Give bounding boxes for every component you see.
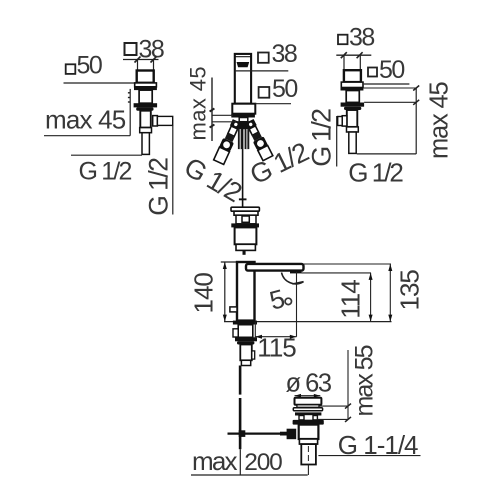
- arrow right: [314, 394, 321, 398]
- centerline: [307, 446, 309, 462]
- linkage blob: [239, 430, 246, 437]
- G 1-1/4 underline: [318, 455, 420, 457]
- arrow right: [290, 335, 297, 339]
- svg-text:max 45: max 45: [186, 66, 211, 141]
- tick right: [151, 57, 157, 63]
- knob: [242, 216, 249, 222]
- square symbol 50: [259, 87, 270, 98]
- arrow top: [369, 273, 373, 280]
- svg-text:max 45: max 45: [426, 82, 454, 159]
- 115 ext left: [254, 322, 256, 339]
- tube lower: [349, 132, 356, 153]
- black band lower: [341, 103, 365, 107]
- 115 dim line: [255, 336, 296, 338]
- waste body: [299, 425, 319, 439]
- svg-text:38: 38: [272, 40, 297, 68]
- ext line right: [359, 55, 361, 70]
- swivel arc: [282, 273, 304, 284]
- locknut: [136, 107, 153, 110]
- max45 ext upper: [363, 87, 416, 89]
- square symbol for 50: [66, 64, 76, 74]
- svg-text:G 1/2: G 1/2: [306, 109, 336, 167]
- square symbol 38: [258, 53, 269, 63]
- body cap line: [235, 56, 251, 58]
- faucet body: [237, 262, 255, 321]
- black band lower: [134, 103, 158, 107]
- band2: [235, 337, 257, 341]
- arrow top: [223, 262, 227, 269]
- arrow bottom: [388, 315, 392, 322]
- second disc: [234, 211, 258, 215]
- neck: [299, 416, 317, 420]
- body: [344, 70, 361, 82]
- top disc: [231, 207, 259, 211]
- tube: [240, 345, 252, 361]
- ext line lower: [212, 121, 236, 123]
- flange: [341, 82, 363, 87]
- max45 leader vertical: [129, 89, 131, 136]
- bottom cap: [236, 244, 255, 250]
- tube step: [347, 127, 359, 132]
- svg-text:ø 63: ø 63: [286, 369, 332, 397]
- square symbol 38: [338, 35, 348, 45]
- ext line upper: [212, 114, 233, 116]
- hose upper: [239, 366, 242, 395]
- svg-text:max 45: max 45: [45, 105, 126, 135]
- tube: [347, 110, 358, 127]
- base: [232, 104, 255, 114]
- hose lower: [239, 398, 242, 449]
- bottom cap: [299, 439, 317, 444]
- tube lower: [142, 133, 149, 155]
- tick upper: [413, 86, 419, 91]
- tailpipe: [301, 444, 316, 464]
- leader line 50: [64, 82, 135, 84]
- arrow left: [295, 394, 302, 398]
- base flange black: [231, 114, 255, 118]
- svg-text:200: 200: [244, 449, 282, 476]
- square symbol 50: [368, 68, 377, 77]
- o-ring band2: [293, 420, 324, 425]
- max55 dim vertical: [347, 350, 349, 419]
- rod crossbar: [239, 198, 247, 200]
- label line 50: [255, 103, 291, 105]
- arc tick: [293, 282, 304, 284]
- svg-text:G 1/2: G 1/2: [348, 158, 403, 188]
- faucet body front: [235, 54, 251, 104]
- ext line left: [343, 55, 345, 70]
- 114 dim vertical: [370, 273, 372, 322]
- arrow bottom: [369, 315, 373, 322]
- locknut: [344, 107, 361, 110]
- max 45 underline: [44, 135, 130, 137]
- 140 dim vertical: [224, 262, 226, 322]
- left hose: [213, 119, 243, 165]
- under rect: [297, 405, 319, 408]
- leader dash 3: [128, 101, 130, 103]
- dimension line 38: [123, 59, 159, 61]
- svg-text:G 1/2: G 1/2: [143, 158, 173, 216]
- label line 38: [235, 70, 288, 72]
- dim line 38: [336, 54, 371, 56]
- vertical G 1/2 leader: [172, 126, 174, 215]
- G 1/2 leader: [357, 153, 416, 155]
- extension line right: [153, 60, 155, 71]
- center fitting block: [238, 123, 249, 130]
- o-ring band1: [295, 412, 321, 415]
- spout: [246, 264, 304, 271]
- linkage bar: [228, 433, 289, 435]
- dia63 dim line: [295, 395, 321, 397]
- tick left: [135, 57, 141, 63]
- svg-text:38: 38: [349, 24, 374, 52]
- G 1/2 leader: [71, 154, 142, 156]
- washer line: [232, 121, 254, 123]
- 114 ext line: [302, 272, 372, 274]
- leader dash 1: [128, 92, 130, 94]
- faucet body: [137, 71, 154, 83]
- inlet pipe lines: [280, 431, 287, 433]
- washer: [293, 408, 322, 411]
- neck: [236, 215, 256, 224]
- tick lower: [413, 100, 419, 105]
- waste body: [235, 227, 257, 244]
- leader 50: [364, 83, 410, 85]
- handle notch: [230, 307, 237, 312]
- pop-up rod: [242, 129, 244, 207]
- side stub: [252, 351, 255, 359]
- max45 ext lower: [364, 101, 416, 103]
- shank: [238, 325, 253, 338]
- leader dash 2: [128, 97, 130, 99]
- tick right: [357, 52, 363, 58]
- svg-text:max: max: [192, 446, 238, 476]
- outlet pipe: [338, 117, 343, 126]
- tick lower: [210, 124, 215, 127]
- max55 leader upper: [319, 405, 348, 407]
- svg-text:140: 140: [189, 273, 219, 314]
- bottom stub: [243, 250, 246, 254]
- centerline riser: [307, 465, 309, 476]
- stud bar left: [238, 129, 243, 149]
- locknut: [237, 341, 254, 344]
- tick upper: [210, 108, 215, 111]
- tick lower: [345, 417, 351, 422]
- flange top: [295, 398, 322, 405]
- svg-text:115: 115: [257, 333, 296, 363]
- flange: [135, 83, 157, 87]
- max200 underline: [191, 474, 308, 476]
- black band upper: [134, 87, 157, 90]
- max55 leader lower: [317, 418, 348, 420]
- svg-text:50: 50: [77, 52, 102, 80]
- handle recess: [237, 62, 250, 67]
- max45 dim vertical: [415, 88, 417, 154]
- 140 ext line top: [221, 261, 237, 263]
- aerator: [290, 271, 302, 274]
- shank: [346, 91, 359, 103]
- stud bar right: [245, 129, 250, 149]
- svg-text:135: 135: [395, 270, 425, 311]
- tick upper: [345, 404, 351, 409]
- outlet flange: [342, 116, 347, 126]
- bottom cap: [241, 360, 250, 365]
- max45 underline vertical: [211, 78, 213, 142]
- 135 ext line: [304, 263, 391, 265]
- arrow top: [388, 264, 392, 271]
- svg-text:max 55: max 55: [351, 345, 379, 416]
- svg-text:50: 50: [379, 56, 404, 84]
- inlet fitting black: [287, 429, 297, 440]
- svg-text:G 1/2: G 1/2: [79, 158, 132, 186]
- tube step: [140, 128, 152, 133]
- 135 dim vertical: [389, 264, 391, 322]
- outlet pipe: [157, 116, 172, 125]
- svg-text:50: 50: [272, 75, 297, 103]
- under stem: [239, 118, 248, 122]
- extension line left: [137, 60, 139, 71]
- svg-text:114: 114: [336, 280, 366, 319]
- base band black: [233, 321, 257, 325]
- hose thin end: [239, 449, 241, 475]
- o-ring band: [231, 223, 259, 227]
- tick left: [341, 52, 347, 58]
- knob: [304, 415, 313, 421]
- 115 ext vertical: [296, 272, 298, 337]
- right hose: [244, 118, 274, 160]
- square symbol for 38: [125, 43, 137, 55]
- shared vertical leader: [336, 116, 338, 167]
- outlet flange: [153, 116, 158, 126]
- shank: [139, 90, 152, 103]
- black band upper: [341, 88, 364, 91]
- shank step: [233, 329, 238, 337]
- counter line: [224, 321, 392, 323]
- tube: [140, 111, 151, 128]
- arrow bottom: [223, 315, 227, 322]
- arrow left: [255, 335, 262, 339]
